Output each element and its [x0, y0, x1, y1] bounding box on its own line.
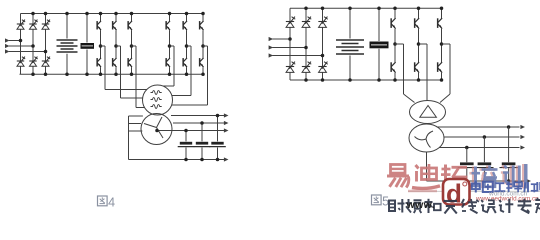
svg-text:www.: www.	[406, 199, 436, 211]
svg-text:4: 4	[108, 195, 115, 209]
svg-text:d: d	[446, 179, 462, 209]
